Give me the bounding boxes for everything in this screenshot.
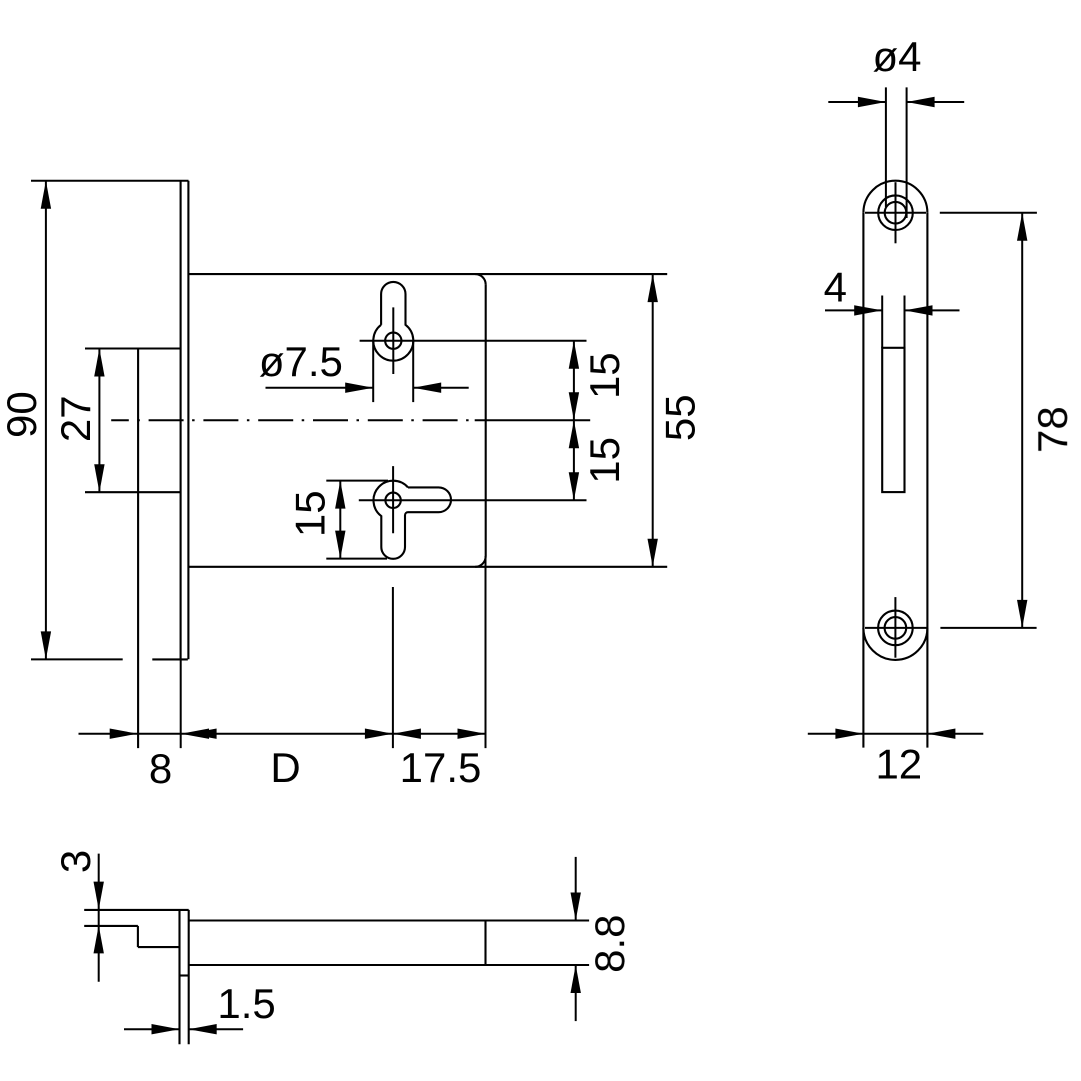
dia 7.5 dimension line left	[266, 387, 374, 389]
15 left dimension line	[339, 481, 341, 559]
upper hole horizontal extension	[360, 340, 587, 342]
dia 4 right extension	[906, 87, 908, 218]
dia 4 dimension line right	[907, 101, 965, 103]
middle horizontal extension	[475, 419, 591, 421]
1.5 dimension line left	[124, 1028, 180, 1030]
arrow 78 bottom	[1017, 600, 1027, 628]
arrow 4 left	[854, 305, 882, 315]
case bar end	[484, 921, 486, 966]
arrow 17.5 right	[458, 729, 486, 739]
dia 4 dimension line left	[828, 101, 886, 103]
tube top edge + 27 extension	[85, 347, 181, 349]
faceplate strip end tick	[180, 974, 189, 976]
rv top hole vertical center line	[895, 182, 897, 243]
svg-text:17.5: 17.5	[400, 744, 482, 791]
arrow D left	[189, 729, 217, 739]
lower hole horizontal extension	[359, 499, 587, 501]
lock case top edge + 55 extension	[188, 273, 667, 275]
90 bottom extension left	[31, 658, 123, 660]
arrow 12 left	[835, 729, 863, 739]
faceplate bottom edge	[152, 658, 188, 660]
plate top cap	[863, 181, 927, 213]
plate bottom cap	[863, 628, 927, 660]
arrow 12 right	[927, 729, 955, 739]
arrow 27 top	[94, 349, 104, 377]
4 dimension line right	[905, 309, 960, 311]
arrow 1.5 right	[189, 1024, 217, 1034]
lower keyhole vertical center line	[392, 466, 394, 533]
svg-text:90: 90	[0, 391, 45, 438]
arrow 8.8 top	[571, 893, 581, 921]
arrow 55 bottom	[648, 539, 658, 567]
arrow dia7.5 right	[413, 383, 441, 393]
arrow 15L bottom	[335, 531, 345, 559]
dia 7.5 left extension	[372, 341, 374, 402]
svg-text:ø4: ø4	[872, 33, 921, 80]
arrow D right	[365, 729, 393, 739]
svg-text:55: 55	[657, 394, 704, 441]
arrow dia4 right	[907, 97, 935, 107]
arrow 8.8 bottom	[571, 965, 581, 993]
arrow 1.5 left	[152, 1024, 180, 1034]
arrow dia4 left	[858, 97, 886, 107]
17.5 right extension below body	[485, 556, 487, 748]
bottom dimension line 8-D-17.5	[79, 733, 486, 735]
arrow 15R-1 bottom	[569, 392, 579, 420]
arrow dia7.5 left	[345, 383, 373, 393]
svg-text:8: 8	[149, 745, 172, 792]
arrow 17.5 left	[393, 729, 421, 739]
78 top extension	[940, 212, 1037, 214]
D right extension below body	[392, 587, 394, 748]
arrow 90 top	[41, 181, 51, 209]
case bar top edge + 8.8 extension	[189, 919, 589, 921]
4 slot left extension	[881, 296, 883, 348]
lock case bottom edge + 55 extension	[188, 566, 667, 568]
step vertical	[137, 926, 139, 947]
svg-text:3: 3	[52, 850, 99, 873]
lower keyhole inner hole	[385, 493, 400, 508]
tube bottom edge + 27 extension	[85, 491, 181, 493]
svg-text:27: 27	[52, 395, 99, 442]
top screw hole inner	[885, 202, 907, 224]
15 right dimension line	[573, 341, 575, 501]
faceplate strip right + 1.5 extension	[188, 910, 190, 1044]
top screw hole countersink	[878, 195, 913, 230]
1.5 dimension line right	[189, 1028, 243, 1030]
arrow 8 right	[181, 729, 209, 739]
55 dimension line	[652, 274, 654, 567]
12 dimension line	[808, 733, 984, 735]
rv bottom hole vertical center line	[894, 597, 896, 658]
svg-text:8.8: 8.8	[586, 915, 633, 973]
arrow 78 top	[1017, 213, 1027, 241]
case bar bottom edge + 8.8 extension	[189, 964, 589, 966]
plate slot	[882, 348, 904, 492]
dia 4 left extension	[885, 87, 887, 207]
upper keyhole slot outline	[373, 282, 413, 361]
4 dimension line left	[825, 309, 882, 311]
arrow 15L top	[335, 481, 345, 509]
8.8 dimension line top	[575, 857, 577, 921]
15 left top extension	[326, 480, 388, 482]
15 left bottom extension	[326, 558, 387, 560]
arrow 3 bottom	[94, 925, 104, 953]
3 dimension line	[98, 854, 100, 982]
lower keyhole slot outline	[373, 481, 451, 559]
upper keyhole inner hole	[385, 333, 401, 349]
dia 7.5 right extension	[412, 341, 414, 402]
svg-text:4: 4	[824, 263, 847, 310]
svg-text:1.5: 1.5	[217, 980, 275, 1027]
plate left edge + 12 extension	[862, 213, 864, 748]
plate right edge + 12 extension	[926, 213, 928, 748]
arrow 15R-2 top	[569, 420, 579, 448]
arrow 27 bottom	[94, 464, 104, 492]
tube left edge + 8 extension	[137, 349, 139, 749]
27 dimension line	[98, 349, 100, 493]
lock case right edge	[485, 285, 487, 557]
78 dimension line	[1021, 213, 1023, 628]
arrow 3 top	[94, 882, 104, 910]
svg-text:12: 12	[875, 740, 922, 787]
arrow 15R-1 top	[569, 341, 579, 369]
78 bottom extension	[940, 627, 1036, 629]
arrow 8 left	[110, 729, 138, 739]
lock case bottom-right corner	[475, 556, 486, 567]
faceplate strip left + 1.5 extension	[178, 910, 180, 1044]
bottom screw hole countersink	[878, 611, 913, 646]
bottom screw hole inner	[885, 617, 907, 639]
svg-text:15: 15	[581, 437, 628, 484]
faceplate left edge	[180, 181, 182, 660]
lock case top-right corner	[475, 274, 486, 285]
svg-text:ø7.5: ø7.5	[259, 338, 343, 385]
8 right extension	[180, 659, 182, 748]
step horizontal	[138, 946, 180, 948]
arrow 90 bottom	[41, 631, 51, 659]
90 dimension line	[45, 181, 47, 660]
8.8 dimension line bottom	[575, 965, 577, 1021]
4 slot right extension	[904, 296, 906, 348]
main axis center line	[111, 419, 469, 421]
arrow 15R-2 bottom	[569, 472, 579, 500]
rv bottom hole horizontal center line	[865, 627, 927, 629]
flange underside line	[84, 925, 138, 927]
top flange line	[84, 909, 189, 911]
rv top hole horizontal center line	[865, 212, 926, 214]
upper keyhole vertical center line	[392, 307, 394, 374]
svg-text:78: 78	[1029, 406, 1076, 453]
svg-text:D: D	[270, 744, 300, 791]
arrow 55 top	[648, 274, 658, 302]
dia 7.5 dimension line right	[413, 387, 469, 389]
svg-text:15: 15	[286, 490, 333, 537]
90 top extension	[31, 180, 189, 182]
svg-text:15: 15	[581, 352, 628, 399]
arrow 4 right	[905, 305, 933, 315]
faceplate right edge	[187, 181, 189, 660]
